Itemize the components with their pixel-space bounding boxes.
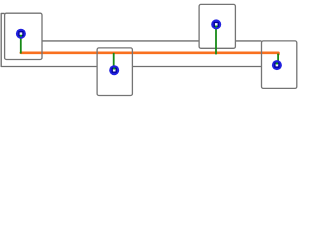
component box U4 border xyxy=(262,41,297,89)
pin P2 xyxy=(109,65,119,75)
wire green leg pin2 xyxy=(113,53,115,70)
wire net2 U1-U4 routed left-down gray connection xyxy=(1,13,261,66)
wire green leg pin3 xyxy=(215,27,217,54)
component box U3 border xyxy=(199,4,235,48)
pin P1 xyxy=(16,29,26,39)
component box U2 fill xyxy=(97,48,132,96)
component box U1 border xyxy=(5,13,42,59)
wire green leg pin1 xyxy=(20,36,22,54)
component box U4 fill xyxy=(262,41,297,89)
component box U1 fill xyxy=(5,13,42,59)
component box U2 border xyxy=(97,48,132,96)
wire orange net trace xyxy=(21,53,279,54)
wire net1 U1-U4 top gray connection xyxy=(42,40,262,42)
wire green leg pin4 xyxy=(277,54,279,65)
component box U3 fill xyxy=(199,4,235,48)
pin P3 xyxy=(211,19,221,29)
pin P4 xyxy=(272,60,282,70)
